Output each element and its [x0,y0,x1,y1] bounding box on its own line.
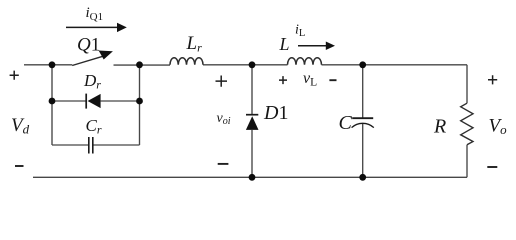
svg-text:D1: D1 [263,102,288,124]
svg-text:iQ1: iQ1 [86,5,104,23]
polarity minus Vo [487,166,497,168]
polarity plus Vo [488,75,497,84]
polarity minus Vd [15,165,24,167]
polarity plus vL [279,76,287,84]
wire Dr row right [101,100,140,102]
svg-text:voi: voi [217,111,231,127]
svg-text:Lr: Lr [186,33,203,55]
wire top rail: Lr to node C [203,64,288,66]
resistor R zigzag [461,103,473,145]
polarity minus vL [329,79,336,81]
svg-text:C: C [339,112,353,134]
wire D1 branch lower [251,130,253,177]
svg-text:Cr: Cr [86,116,102,137]
polarity plus Vd [10,71,19,80]
capacitor Cr left plate [88,137,90,154]
diode Dr triangle [88,94,101,108]
node D junction dot [359,61,366,68]
svg-text:Q1: Q1 [77,34,100,55]
wire Dr-Cr left leg [51,65,53,145]
wire Dr row left [52,100,86,102]
inductor L coil [288,58,322,65]
svg-text:Vo: Vo [489,116,508,138]
svg-text:L: L [279,34,290,54]
wire right branch lower [466,145,468,178]
svg-text:iL: iL [295,23,305,40]
switch Q1 arrowhead [99,51,113,60]
junction dot Dr left [49,98,56,105]
polarity minus voi [218,163,229,165]
inductor Lr coil [170,58,203,65]
polarity plus voi [216,76,228,87]
capacitor Cr right plate [92,137,94,154]
wire top rail: source + terminal to node A [24,64,72,66]
svg-text:Dr: Dr [83,71,101,92]
node A junction dot [49,61,56,68]
capacitor C top plate [352,117,373,119]
current arrow iL [298,42,335,51]
wire C branch upper [362,65,364,118]
svg-text:vL: vL [303,70,317,89]
svg-text:R: R [433,116,446,138]
wire D1 branch upper [251,65,253,115]
diode Dr cathode bar [85,94,87,109]
current arrow iQ1 [66,23,127,32]
wire top rail: switch right contact to node B [114,64,171,66]
wire top rail: L to top-right corner [322,64,468,66]
diode D1 triangle [246,116,259,130]
diode D1 cathode bar [246,114,258,116]
wire Cr row left [52,144,89,146]
junction dot bottom C [359,174,366,181]
node C junction dot [249,61,256,68]
node B junction dot [136,61,143,68]
junction dot bottom D1 [249,174,256,181]
wire right branch upper [466,65,468,103]
capacitor C curved plate [352,123,374,127]
junction dot Dr right [136,98,143,105]
wire Cr row right [93,144,139,146]
wire Dr-Cr right leg [139,65,141,145]
svg-text:Vd: Vd [11,115,30,137]
wire C branch lower [362,123,364,177]
wire bottom rail [33,176,467,178]
switch Q1 blade [72,56,104,66]
